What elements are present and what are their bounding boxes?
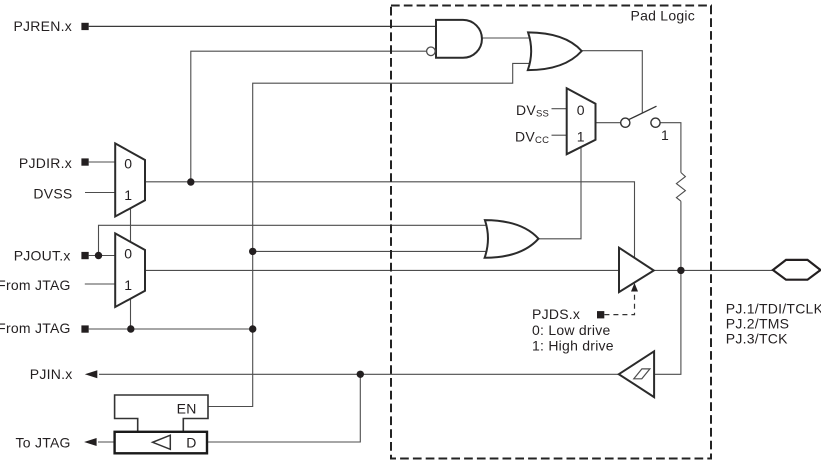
svg-text:0: 0 [124,245,132,261]
wire DVcc to DV mux [552,134,568,136]
svg-text:From JTAG: From JTAG [0,277,71,293]
Schmitt trigger input buffer [619,351,654,397]
label PJREN.x [13,18,72,34]
svg-text:DVSS: DVSS [33,185,72,201]
wire PJDIR mux output to buffer enable [145,182,635,258]
svg-text:1: 1 [577,128,585,144]
OR gate U3 lower [485,220,539,258]
label 1 at switch [661,127,669,143]
mux PJDIR (0/1) [115,143,145,216]
svg-text:PJ.3/TCK: PJ.3/TCK [726,331,788,347]
terminal square From JTAG [81,325,88,332]
inverter bubble on NAND lower input [427,47,436,56]
wire switch to resistor [660,123,681,173]
EN latch enable box [115,395,208,432]
arrow PJIN.x output [85,370,98,378]
terminal square PJREN.x [81,23,88,30]
wire branch PJDIR output up to NAND inverted input [191,51,427,182]
wire To JTAG from D latch [98,441,115,443]
svg-text:1: 1 [124,187,132,203]
junction dot PJOUT branch [95,252,102,259]
label 0: Low drive [532,322,610,338]
arrowhead drive strength into buffer [631,283,638,292]
svg-text:DVSS: DVSS [516,102,549,120]
dashed box Pad Logic [391,6,711,459]
wire pad node down to Schmitt input [654,270,681,374]
switch contact circle right [651,118,660,127]
svg-text:To JTAG: To JTAG [16,435,71,451]
label PJIN.x [30,366,73,382]
wire From JTAG enable row [89,328,253,330]
wire PJOUT mux output to output buffer [145,269,619,271]
wire OR1 output to switch lever [582,51,643,113]
svg-text:DVCC: DVCC [515,128,549,146]
label From JTAG row1 [0,277,71,293]
wire NAND output to OR1 [482,37,530,39]
svg-text:PJIN.x: PJIN.x [30,366,73,382]
terminal square PJDS.x [597,311,604,318]
switch lever [629,106,657,119]
wire DV mux output to switch [596,122,621,124]
wire From JTAG to mux 1 input [85,283,116,285]
terminal square PJOUT.x [81,252,88,259]
svg-text:1: 1 [124,277,132,293]
svg-text:From JTAG: From JTAG [0,320,71,336]
wire PJIN.x from Schmitt output [99,373,619,375]
arrow To JTAG output [84,438,97,446]
svg-text:0: Low drive: 0: Low drive [532,322,610,338]
svg-text:0: 0 [577,102,585,118]
mux DVSS/DVCC (0/1) [567,88,596,154]
resistor pull-up/down [676,173,685,202]
wire DVSS to mux [85,192,116,194]
junction dot pad node [677,267,684,274]
wire OR2 output to DV mux select [539,142,581,239]
svg-text:1: 1 [661,127,669,143]
label PJ.1/TDI/TCLK [726,301,821,317]
label DVSS [33,185,72,201]
svg-text:EN: EN [177,401,197,417]
junction dot JTAG net / From JTAG row [249,325,256,332]
svg-text:PJ.1/TDI/TCLK: PJ.1/TDI/TCLK [726,301,821,317]
PJDS dashed control wire [604,292,634,315]
switch contact circle left [621,118,630,127]
svg-text:PJDS.x: PJDS.x [532,306,580,322]
label PJ.2/TMS [726,316,789,332]
wire PJIN node down to D latch input [207,374,360,442]
svg-text:PJ.2/TMS: PJ.2/TMS [726,316,789,332]
mux PJOUT (0/1) [115,233,145,307]
wire PJOUT.x to mux [89,255,116,257]
junction dot mux select / From JTAG [127,325,134,332]
label PJDIR.x [19,155,72,171]
terminal square PJDIR.x [81,158,88,165]
svg-text:1: High drive: 1: High drive [532,338,614,354]
output buffer driver [619,248,654,292]
label DVCC subscript [515,128,549,146]
wire PJOUT branch up to OR2 top input [99,225,491,255]
label To JTAG [16,435,71,451]
svg-text:Pad Logic: Pad Logic [631,7,696,23]
svg-text:PJOUT.x: PJOUT.x [14,247,71,263]
junction dot JTAG net / OR2 input [249,248,256,255]
wire PJREN.x to NAND [89,25,437,27]
pad hexagon PJ pin [773,260,821,280]
wire OR2 bottom input from JTAG net [253,250,489,252]
wire JTAG enable net vertical EN box to OR1 bottom input [208,63,530,406]
label 1: High drive [532,338,614,354]
junction dot PJIN / D latch [357,371,364,378]
OR gate U2 top [528,32,582,70]
wire PJDIR.x to mux [89,161,116,163]
label DVSS subscript [516,102,549,120]
svg-text:D: D [186,435,196,451]
label Pad Logic [631,7,696,23]
svg-text:PJREN.x: PJREN.x [13,18,72,34]
wire mux select chain PJDIR/PJOUT muxes to From JTAG row [130,205,132,329]
wire DVss to DV mux [552,108,568,110]
wire resistor to pad node [680,201,682,270]
label PJ.3/TCK [726,331,788,347]
svg-text:0: 0 [124,155,132,171]
D latch box [115,432,207,454]
junction dot PJDIR output branch [187,178,194,185]
label From JTAG row2 [0,320,71,336]
wire buffer output to pad [654,269,774,271]
svg-text:PJDIR.x: PJDIR.x [19,155,72,171]
label PJDS.x [532,306,580,322]
NAND gate (AND with inverted lower input) U1 [436,20,482,58]
label PJOUT.x [14,247,71,263]
